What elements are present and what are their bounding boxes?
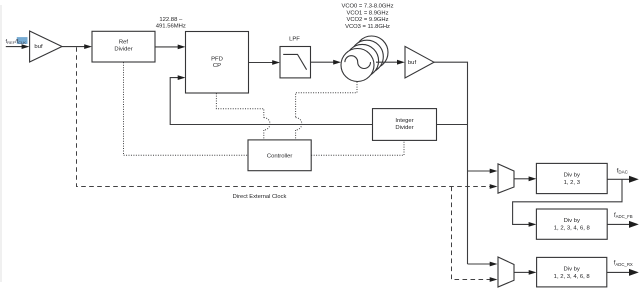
svg-text:LPF: LPF [289, 36, 300, 42]
svg-text:fADC_FB: fADC_FB [614, 213, 633, 219]
svg-text:Controller: Controller [267, 153, 293, 159]
svg-text:VCO0 = 7.3-8.0GHz: VCO0 = 7.3-8.0GHz [341, 3, 393, 9]
svg-text:PFD: PFD [211, 56, 223, 62]
svg-text:VCO3 = 11.8GHz: VCO3 = 11.8GHz [345, 24, 390, 30]
svg-text:fDAC: fDAC [617, 168, 629, 174]
svg-text:Div by: Div by [564, 173, 580, 179]
svg-text:122.88 –: 122.88 – [159, 17, 183, 23]
svg-text:Divider: Divider [114, 47, 132, 53]
svg-text:CP: CP [213, 63, 221, 69]
svg-text:1, 2, 3: 1, 2, 3 [564, 180, 581, 186]
svg-text:VCO1 = 8.9GHz: VCO1 = 8.9GHz [346, 10, 388, 16]
svg-text:Direct External Clock: Direct External Clock [233, 194, 287, 200]
svg-text:Div by: Div by [564, 218, 580, 224]
svg-text:Div by: Div by [564, 267, 580, 273]
svg-text:buf: buf [408, 60, 417, 66]
svg-text:fREF/fCLK: fREF/fCLK [6, 39, 27, 45]
svg-text:1, 2, 3, 4, 6, 8: 1, 2, 3, 4, 6, 8 [554, 226, 591, 232]
svg-text:buf: buf [34, 44, 43, 50]
svg-text:Integer: Integer [395, 118, 413, 124]
svg-text:1, 2, 3, 4, 6, 8: 1, 2, 3, 4, 6, 8 [554, 274, 591, 280]
svg-text:VCO2 = 9.9GHz: VCO2 = 9.9GHz [346, 17, 388, 23]
svg-text:Ref: Ref [119, 40, 129, 46]
svg-text:491.56MHz: 491.56MHz [156, 24, 186, 30]
svg-text:fADC_RX: fADC_RX [614, 261, 633, 267]
svg-text:Divider: Divider [395, 125, 413, 131]
